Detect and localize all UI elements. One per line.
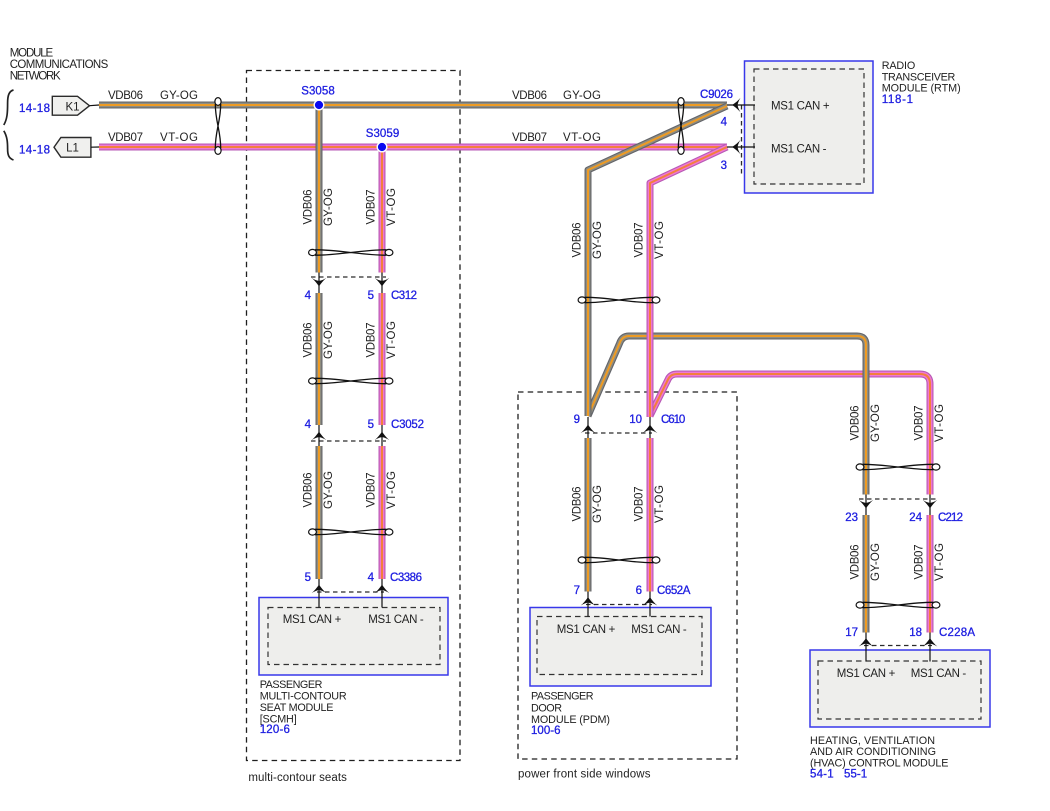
svg-text:MODULE (RTM): MODULE (RTM) xyxy=(882,82,961,94)
connector C312 stems and arrows xyxy=(319,273,382,294)
rotated wire labels seats section 3 xyxy=(303,471,399,509)
svg-text:power front side windows: power front side windows xyxy=(518,769,651,781)
wire VDB06 C212 to C228A xyxy=(863,515,870,633)
enclosure multi-contour seats xyxy=(247,71,461,761)
svg-text:L1: L1 xyxy=(66,142,79,154)
svg-text:C312: C312 xyxy=(391,290,417,302)
connector C212 dashed line xyxy=(859,498,937,500)
connector C3052 stems and arrows xyxy=(319,425,382,446)
svg-text:C610: C610 xyxy=(661,414,685,426)
svg-text:VDB07: VDB07 xyxy=(366,323,378,358)
twisted pair symbol seats section 1 xyxy=(309,249,393,255)
svg-text:MS1 CAN -: MS1 CAN - xyxy=(911,668,967,680)
svg-text:MS1 CAN -: MS1 CAN - xyxy=(631,624,687,636)
svg-text:K1: K1 xyxy=(65,101,79,113)
module PDM box xyxy=(530,608,711,687)
svg-text:NETWORK: NETWORK xyxy=(10,71,61,83)
svg-text:VT-OG: VT-OG xyxy=(160,132,198,144)
svg-text:S3058: S3058 xyxy=(301,86,335,98)
connector C652A stems and arrows xyxy=(588,592,650,617)
svg-text:PASSENGER: PASSENGER xyxy=(260,679,323,691)
svg-text:24: 24 xyxy=(909,512,922,524)
splice S3059 xyxy=(377,142,387,152)
svg-text:VDB06: VDB06 xyxy=(303,473,315,508)
svg-text:VDB06: VDB06 xyxy=(850,545,862,580)
svg-text:VT-OG: VT-OG xyxy=(654,221,666,259)
svg-text:MULTI-CONTOUR: MULTI-CONTOUR xyxy=(260,691,347,703)
twisted pair symbol HVAC section 2 xyxy=(856,602,940,608)
svg-text:MS1 CAN +: MS1 CAN + xyxy=(557,624,616,636)
svg-text:GY-OG: GY-OG xyxy=(323,188,335,226)
connector C610 dashed line xyxy=(585,432,652,434)
rotated wire labels HVAC section 1 xyxy=(850,404,947,442)
rotated wire labels windows section 1 xyxy=(572,221,667,259)
svg-text:VDB07: VDB07 xyxy=(914,545,926,580)
twisted pair symbol on buses near C9026 xyxy=(678,98,684,155)
svg-text:18: 18 xyxy=(909,627,922,639)
rotated wire labels seats section 1 xyxy=(303,188,399,226)
rotated wire labels seats section 2 xyxy=(303,321,399,359)
svg-text:VDB07: VDB07 xyxy=(634,487,646,522)
module HVAC box xyxy=(810,650,990,727)
svg-text:VDB07: VDB07 xyxy=(108,132,143,144)
connector C3052 dashed line xyxy=(311,440,386,442)
wire VDB06 C3052 to C3386 xyxy=(316,446,323,579)
svg-text:6: 6 xyxy=(636,585,642,597)
connector C212 stems and arrows xyxy=(866,495,930,516)
wire VDB07 C9026 pin 3 to C610 pin 10 xyxy=(650,147,727,417)
module SCMH box xyxy=(259,598,448,676)
twisted pair symbol seats section 2 xyxy=(309,378,393,384)
enclosure power front side windows xyxy=(518,392,737,759)
svg-text:VDB06: VDB06 xyxy=(108,90,143,102)
svg-text:VT-OG: VT-OG xyxy=(386,188,398,226)
svg-text:4: 4 xyxy=(368,572,375,584)
wire VDB07 C312 to C3052 xyxy=(379,293,386,425)
wire VDB07 C212 to C228A xyxy=(927,515,934,633)
connector K1 xyxy=(52,96,89,115)
svg-text:MS1 CAN -: MS1 CAN - xyxy=(771,144,827,156)
svg-text:10: 10 xyxy=(629,414,642,426)
svg-text:VT-OG: VT-OG xyxy=(934,404,946,442)
svg-text:SEAT MODULE: SEAT MODULE xyxy=(260,702,334,714)
svg-text:DOOR: DOOR xyxy=(531,703,562,715)
svg-text:118-1: 118-1 xyxy=(882,94,913,106)
wire VDB07 bus L1 to C9026 pin 3 xyxy=(99,144,727,151)
svg-text:54-1: 54-1 xyxy=(810,769,834,781)
svg-text:multi-contour seats: multi-contour seats xyxy=(248,772,347,784)
svg-text:MS1 CAN +: MS1 CAN + xyxy=(771,101,830,113)
svg-text:AND AIR CONDITIONING: AND AIR CONDITIONING xyxy=(810,746,936,758)
svg-text:120-6: 120-6 xyxy=(260,724,290,736)
brace left margin xyxy=(4,90,14,160)
svg-text:GY-OG: GY-OG xyxy=(592,485,604,523)
connector C9026 dashed line xyxy=(741,105,743,177)
twisted pair symbol windows section 2 xyxy=(578,557,660,563)
svg-text:VDB06: VDB06 xyxy=(850,406,862,441)
svg-text:9: 9 xyxy=(574,414,580,426)
svg-text:55-1: 55-1 xyxy=(844,769,867,781)
svg-text:C9026: C9026 xyxy=(700,89,733,101)
svg-text:VT-OG: VT-OG xyxy=(563,132,601,144)
svg-text:GY-OG: GY-OG xyxy=(870,404,882,442)
wire VDB06 branch PDM to HVAC C212 pin 23 xyxy=(588,336,866,495)
rotated wire labels HVAC section 2 xyxy=(850,543,947,581)
svg-text:PASSENGER: PASSENGER xyxy=(531,691,594,703)
svg-text:MS1 CAN +: MS1 CAN + xyxy=(837,668,896,680)
svg-text:VT-OG: VT-OG xyxy=(386,471,398,509)
svg-text:C3052: C3052 xyxy=(391,419,424,431)
connector C312 dashed line xyxy=(311,276,386,278)
svg-text:MS1 CAN +: MS1 CAN + xyxy=(283,614,342,626)
connector C9026 stems and arrows xyxy=(727,105,755,147)
svg-text:VT-OG: VT-OG xyxy=(934,543,946,581)
svg-text:VDB06: VDB06 xyxy=(303,323,315,358)
svg-text:GY-OG: GY-OG xyxy=(323,471,335,509)
twisted pair symbol windows section 1 xyxy=(578,297,660,303)
wire VDB06 C9026 pin 4 to C610 pin 9 xyxy=(588,106,727,416)
svg-text:VDB07: VDB07 xyxy=(634,223,646,258)
splice S3058 xyxy=(314,100,324,110)
connector C3386 stems and arrows xyxy=(319,579,382,608)
svg-text:VDB06: VDB06 xyxy=(303,190,315,225)
svg-text:MS1 CAN -: MS1 CAN - xyxy=(368,614,424,626)
svg-text:VDB06: VDB06 xyxy=(512,90,547,102)
wire VDB07 C3052 to C3386 xyxy=(379,446,386,579)
svg-text:VDB07: VDB07 xyxy=(914,406,926,441)
svg-text:C212: C212 xyxy=(938,512,963,524)
svg-text:GY-OG: GY-OG xyxy=(160,90,198,102)
svg-text:MODULE: MODULE xyxy=(10,48,54,60)
svg-text:3: 3 xyxy=(721,160,727,172)
twisted pair symbol HVAC section 1 xyxy=(856,464,940,470)
wire VDB07 splice S3059 drop to C312 pin 5 xyxy=(379,147,386,273)
svg-text:RADIO: RADIO xyxy=(882,60,916,72)
svg-text:VDB07: VDB07 xyxy=(512,132,547,144)
connector C228A stems and arrows xyxy=(866,633,930,662)
rotated wire labels windows section 2 xyxy=(572,485,667,523)
svg-text:100-6: 100-6 xyxy=(531,725,561,737)
svg-text:GY-OG: GY-OG xyxy=(592,221,604,259)
svg-text:4: 4 xyxy=(721,117,728,129)
svg-text:4: 4 xyxy=(305,290,312,302)
svg-text:VDB06: VDB06 xyxy=(572,223,584,258)
svg-text:14-18: 14-18 xyxy=(19,145,50,157)
svg-text:S3059: S3059 xyxy=(366,128,400,140)
wire VDB06 C610 to C652A xyxy=(585,438,592,592)
svg-text:14-18: 14-18 xyxy=(19,103,50,115)
svg-text:C228A: C228A xyxy=(939,627,975,639)
connector C3386 dashed line xyxy=(317,591,384,593)
twisted pair symbol seats section 3 xyxy=(309,529,393,535)
svg-text:4: 4 xyxy=(305,419,312,431)
wire VDB07 branch PDM to HVAC C212 pin 24 xyxy=(650,374,930,495)
svg-text:HEATING, VENTILATION: HEATING, VENTILATION xyxy=(810,735,935,747)
svg-text:VDB07: VDB07 xyxy=(366,473,378,508)
svg-text:VT-OG: VT-OG xyxy=(386,321,398,359)
module RTM box xyxy=(745,61,874,193)
connector L1 xyxy=(54,138,91,158)
wire VDB07 C610 to C652A xyxy=(647,438,654,592)
svg-text:17: 17 xyxy=(845,627,858,639)
svg-text:23: 23 xyxy=(845,512,858,524)
connector C228A dashed line xyxy=(864,645,932,647)
svg-text:COMMUNICATIONS: COMMUNICATIONS xyxy=(10,59,109,71)
twisted pair symbol on buses near K1 xyxy=(215,98,221,155)
svg-text:VDB06: VDB06 xyxy=(572,487,584,522)
svg-text:GY-OG: GY-OG xyxy=(323,321,335,359)
svg-text:GY-OG: GY-OG xyxy=(563,90,601,102)
svg-text:5: 5 xyxy=(305,572,311,584)
svg-text:C3386: C3386 xyxy=(390,572,422,584)
svg-text:GY-OG: GY-OG xyxy=(870,543,882,581)
svg-text:5: 5 xyxy=(368,419,374,431)
svg-text:VDB07: VDB07 xyxy=(366,190,378,225)
connector C652A dashed line xyxy=(586,604,652,606)
svg-text:5: 5 xyxy=(368,290,374,302)
svg-text:C652A: C652A xyxy=(657,585,691,597)
svg-text:(HVAC) CONTROL MODULE: (HVAC) CONTROL MODULE xyxy=(810,757,949,769)
wire VDB06 C312 to C3052 xyxy=(316,293,323,425)
wire VDB06 bus K1 to C9026 pin 4 xyxy=(99,102,727,109)
connector C610 stems and arrows xyxy=(588,417,650,438)
svg-text:7: 7 xyxy=(574,585,580,597)
svg-text:VT-OG: VT-OG xyxy=(654,485,666,523)
wire VDB06 splice S3058 drop to C312 pin 4 xyxy=(316,105,323,273)
